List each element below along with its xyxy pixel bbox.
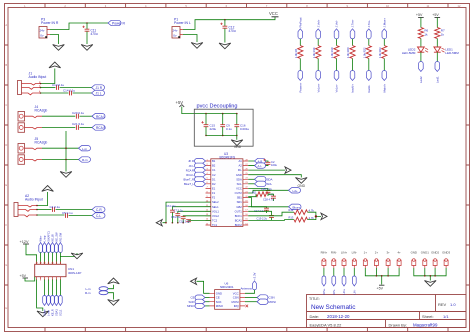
- svg-text:GND1: GND1: [421, 251, 429, 255]
- svg-text:SR1: SR1: [237, 200, 243, 204]
- ground under CN1: [37, 311, 49, 317]
- svg-text:backl+: backl+: [351, 84, 355, 93]
- wire: [352, 59, 354, 71]
- svg-text:RCA L: RCA L: [96, 115, 105, 119]
- svg-text:R13: R13: [289, 216, 294, 220]
- svg-text:Ld+: Ld+: [293, 189, 298, 193]
- wire A2 ring row: [37, 214, 64, 216]
- wire SDA: [248, 178, 254, 180]
- pin header 3+: [386, 251, 390, 269]
- svg-text:C14 0.1u: C14 0.1u: [63, 89, 76, 93]
- capacitor C11 470u: [82, 23, 97, 44]
- net flag CSN: [257, 295, 275, 300]
- wire OUT2 to Ld+ flag: [248, 190, 288, 193]
- wire: [336, 39, 338, 46]
- svg-text:JK R: JK R: [188, 159, 194, 163]
- svg-text:+5V: +5V: [20, 274, 27, 278]
- svg-text:1.0k R19: 1.0k R19: [330, 47, 334, 58]
- svg-text:SLine: SLine: [43, 309, 47, 316]
- svg-text:GND: GND: [234, 145, 242, 149]
- power flag +5V (pvcc): [176, 100, 185, 107]
- svg-text:IRQ: IRQ: [234, 304, 240, 308]
- svg-text:J.Man+: J.Man+: [383, 18, 387, 28]
- wire to A2 R flag: [56, 209, 92, 211]
- no-connect IRQ: [246, 305, 249, 308]
- svg-text:E: E: [5, 183, 7, 187]
- capacitor C17 2.2u: [248, 207, 269, 213]
- resistor R22 1.0k: [362, 46, 371, 59]
- wire: [59, 280, 61, 296]
- net port arrow down: [108, 300, 120, 306]
- svg-text:D: D: [5, 143, 7, 147]
- net flag J.Tre+: [350, 29, 355, 39]
- net flag SLine: [43, 296, 47, 306]
- svg-text:Power R: Power R: [112, 22, 126, 26]
- svg-text:RCA R: RCA R: [96, 126, 106, 130]
- svg-text:VOL1: VOL1: [212, 209, 219, 213]
- net flag SCL1: [59, 296, 63, 306]
- ground right of CN1: [71, 253, 83, 259]
- net flag MISO: [187, 303, 209, 308]
- svg-text:Led1: Led1: [436, 76, 440, 83]
- svg-text:0v: 0v: [173, 34, 177, 38]
- svg-text:+12V: +12V: [20, 240, 29, 244]
- svg-text:GND2: GND2: [431, 251, 439, 255]
- wire: [44, 253, 46, 265]
- capacitor C2: [263, 159, 277, 167]
- net flag PlsPout: [298, 29, 303, 39]
- svg-text:RIN+: RIN+: [322, 288, 326, 294]
- junction: [424, 275, 426, 277]
- LED LED2 LED-5MM: [402, 47, 428, 55]
- svg-text:BCA1: BCA1: [235, 219, 243, 223]
- ground (bottom row): [425, 281, 437, 287]
- wire: [333, 268, 335, 276]
- net flag A2 L: [92, 213, 105, 218]
- junction at C11: [86, 22, 88, 24]
- svg-text:1k: 1k: [441, 32, 445, 36]
- pvcc Decoupling group box: [194, 104, 253, 147]
- wire A1 row: [248, 161, 268, 162]
- svg-text:TC2: TC2: [212, 219, 218, 223]
- net port arrow right: [321, 213, 327, 219]
- resistor R7 1k: [435, 28, 445, 39]
- wire: [59, 253, 61, 265]
- connector P6 line out: [85, 287, 108, 295]
- wire +3.3V to VCC pin: [245, 290, 255, 294]
- net port arrow left (U6 gnd): [191, 278, 197, 284]
- svg-text:B: B: [5, 63, 7, 67]
- capacitor C26 2.2u: [248, 187, 272, 196]
- svg-text:J1 L: J1 L: [96, 92, 102, 96]
- net flag RCA L: [92, 114, 105, 119]
- wire P3 24v to Power R net: [50, 23, 108, 30]
- wire: [48, 253, 50, 265]
- net flag BlueT_L: [184, 181, 206, 186]
- net flag LIN+: [342, 276, 346, 286]
- svg-text:BCK2: BCK2: [235, 223, 243, 227]
- svg-text:B2: B2: [212, 164, 216, 168]
- svg-text:Sheet:: Sheet:: [422, 314, 434, 319]
- svg-text:LED-5MM: LED-5MM: [445, 51, 459, 55]
- wire: [40, 253, 42, 265]
- svg-text:MOSI: MOSI: [269, 300, 277, 304]
- svg-text:Date:: Date:: [310, 314, 320, 319]
- power flag +12V: [20, 240, 30, 244]
- net flag Ld+: [289, 188, 301, 193]
- svg-text:+5V: +5V: [176, 100, 184, 105]
- svg-text:C19 2.2u: C19 2.2u: [257, 216, 268, 220]
- wire R12/R13 join: [308, 212, 322, 219]
- junction at C12: [224, 19, 226, 21]
- net flag N-L: [255, 163, 266, 168]
- capacitor C19 2.2u: [248, 211, 274, 220]
- svg-text:C-R: C-R: [96, 208, 102, 212]
- power flag +5V (bottom): [377, 285, 385, 290]
- wire: [48, 280, 50, 296]
- wire: [323, 268, 325, 276]
- power flag VCC: [269, 11, 279, 17]
- wire J1 tip row: [41, 87, 56, 89]
- svg-text:+5V: +5V: [377, 287, 384, 291]
- net flag JK R: [188, 159, 205, 164]
- pin header GND3: [442, 251, 450, 269]
- svg-text:J.Vol-: J.Vol-: [335, 20, 339, 27]
- svg-text:BlueT_L: BlueT_L: [184, 182, 195, 186]
- net flag J.Man+: [382, 29, 387, 39]
- svg-text:TITLE:: TITLE:: [309, 297, 320, 301]
- svg-text:C1: C1: [212, 168, 216, 172]
- net flag N-R: [255, 158, 266, 163]
- capacitor C21 0.1u: [72, 122, 85, 130]
- svg-text:1.0: 1.0: [450, 302, 456, 307]
- net flag Blue+: [289, 204, 302, 209]
- resistor R19 1.0k: [330, 46, 339, 59]
- wire to A2 L flag: [69, 215, 92, 217]
- svg-text:Drawn By:: Drawn By:: [389, 322, 407, 327]
- svg-text:KE_SW: KE_SW: [55, 232, 59, 242]
- power flag +5V (CN1): [20, 274, 35, 281]
- svg-text:backl-: backl-: [367, 85, 371, 93]
- svg-text:C7 2.2u: C7 2.2u: [174, 209, 184, 213]
- capacitor C4 0.1u: [50, 205, 61, 212]
- wire A2 tip row: [37, 209, 51, 211]
- svg-text:REV: REV: [438, 302, 447, 307]
- capacitor C12 470u: [220, 20, 236, 43]
- svg-text:C2: C2: [212, 173, 216, 177]
- wire to RCA L flag: [80, 115, 93, 117]
- svg-text:SDA: SDA: [267, 177, 273, 181]
- capacitor C16 0.001u: [234, 114, 249, 136]
- svg-text:1.0k R14: 1.0k R14: [312, 47, 316, 58]
- net flag Mainl+: [382, 71, 387, 81]
- svg-text:+3.3V: +3.3V: [253, 272, 257, 280]
- wire: [353, 268, 355, 276]
- net flag backl+: [350, 70, 355, 80]
- resistor R14 1.0k: [312, 46, 321, 59]
- svg-text:2+: 2+: [375, 251, 379, 255]
- svg-text:LED-5MM: LED-5MM: [402, 51, 416, 55]
- pin header GND: [411, 251, 417, 269]
- svg-text:A: A: [5, 23, 7, 27]
- svg-text:VCC: VCC: [236, 187, 242, 191]
- ground under P3: [53, 45, 65, 51]
- net flag RCA R: [92, 125, 106, 130]
- op-amp U3 BD3491FS: [206, 152, 249, 227]
- net flag 5V(AFC): [47, 243, 51, 253]
- pin header 2+: [374, 251, 378, 269]
- svg-text:RIN-: RIN-: [331, 251, 337, 255]
- wire J4 top row: [42, 115, 75, 117]
- net port arrow left of caps: [156, 220, 162, 226]
- svg-text:Magacraft99: Magacraft99: [413, 322, 438, 327]
- pin header LIN-: [352, 251, 357, 269]
- pin header GND1: [421, 251, 429, 269]
- capacitor C14 0.1u: [63, 89, 76, 96]
- svg-text:R12: R12: [289, 208, 294, 212]
- LED LED1 LED-5MM: [434, 47, 459, 55]
- net flag Power R: [108, 20, 126, 25]
- svg-text:RIN-: RIN-: [332, 289, 336, 294]
- net flag L-mn: [47, 295, 51, 305]
- capacitor C9 0.1u: [220, 114, 232, 136]
- net flag R-in: [79, 157, 91, 162]
- net flag MOSI: [257, 299, 276, 304]
- svg-text:24v: 24v: [173, 28, 178, 32]
- wire 1+..4+ bus to +5V: [365, 268, 399, 285]
- wire pvcc top rail: [206, 113, 237, 115]
- connector A2 Audio INput: [14, 194, 43, 217]
- capacitor C5 0.1u: [62, 211, 73, 218]
- capacitor C7 2.2u: [174, 209, 211, 223]
- svg-text:Wln+: Wln+: [39, 235, 43, 241]
- wire J4 bottom row: [42, 127, 75, 129]
- svg-text:L-mn: L-mn: [47, 310, 51, 316]
- svg-text:1k: 1k: [424, 32, 428, 36]
- wire CN1 to ground right: [60, 253, 77, 257]
- svg-text:TC1: TC1: [212, 223, 218, 227]
- ground GND (U3): [296, 178, 308, 189]
- net flag A2 R: [92, 207, 105, 212]
- net flag Led1: [435, 61, 440, 71]
- svg-text:+5V: +5V: [416, 13, 423, 17]
- svg-text:KE_R: KE_R: [51, 309, 55, 316]
- junction rails: [205, 113, 207, 115]
- wire FIL to port: [248, 169, 285, 171]
- wire: [44, 280, 46, 296]
- wire: [383, 59, 385, 71]
- svg-text:B1: B1: [212, 159, 216, 163]
- net flag KE_R: [51, 296, 55, 306]
- junction: [315, 215, 317, 217]
- net port arrow up: [108, 278, 120, 284]
- wire SEL2 loop to caps: [163, 202, 211, 223]
- svg-text:LIN+: LIN+: [341, 251, 347, 255]
- svg-text:0.001u: 0.001u: [240, 127, 250, 131]
- net flag SCL: [255, 181, 273, 186]
- capacitor C13 0.1u: [52, 83, 65, 90]
- svg-text:RD.SW: RD.SW: [59, 232, 63, 241]
- svg-text:PlsPout: PlsPout: [299, 17, 303, 27]
- net flag Power+: [298, 71, 303, 81]
- svg-text:C4 0.1u: C4 0.1u: [50, 205, 61, 209]
- net flag Led2: [419, 61, 424, 71]
- wire: [55, 280, 57, 296]
- pin header GND2: [431, 251, 439, 269]
- svg-text:RCA2gb: RCA2gb: [35, 141, 48, 145]
- net flag J.Tre-: [367, 29, 372, 39]
- svg-text:3+: 3+: [386, 251, 390, 255]
- net flag VoLm+: [316, 71, 321, 81]
- svg-text:GND: GND: [236, 173, 242, 177]
- wire: [352, 39, 354, 46]
- svg-text:NRF24l01: NRF24l01: [220, 285, 234, 289]
- svg-text:A2: A2: [239, 164, 243, 168]
- wire port to A2 sleeve: [37, 192, 48, 206]
- svg-text:1/1: 1/1: [443, 314, 449, 319]
- wire SR1 to Blue+ flag: [248, 198, 288, 207]
- svg-text:SDA: SDA: [236, 177, 242, 181]
- svg-text:SCL: SCL: [237, 182, 243, 186]
- svg-text:R-in: R-in: [82, 158, 88, 162]
- wire to GND arrow: [108, 293, 114, 300]
- pin header 4+: [397, 251, 401, 269]
- wire: [52, 280, 54, 296]
- wire: [343, 268, 345, 276]
- svg-text:MISO: MISO: [187, 304, 195, 308]
- resistor R23 1.0k: [378, 46, 387, 59]
- svg-text:GND: GND: [411, 251, 417, 255]
- ground under RCA jacks: [60, 172, 72, 178]
- svg-text:A1: A1: [239, 159, 243, 163]
- connector CN1 300S-14P: [35, 262, 82, 282]
- wire to J1 L flag: [73, 92, 92, 94]
- svg-text:C13 0.1u: C13 0.1u: [52, 83, 65, 87]
- wire P3 0v to ground: [50, 35, 59, 45]
- svg-text:C5 0.1u: C5 0.1u: [62, 211, 73, 215]
- capacitor C15 220u: [201, 114, 216, 136]
- wire MOSI: [245, 301, 257, 303]
- pin header RIN+: [321, 251, 328, 269]
- power flag +5V: [416, 13, 424, 28]
- svg-text:1.0k R23: 1.0k R23: [378, 47, 382, 58]
- svg-text:Led2: Led2: [419, 76, 423, 83]
- net flag backl-: [367, 71, 372, 81]
- wire GND pin: [248, 175, 301, 178]
- wire A2 row: [248, 165, 268, 166]
- net flag J.Vol-: [334, 29, 339, 39]
- svg-text:LIN-: LIN-: [353, 289, 357, 294]
- module U6 NRF24l01 Antenna: [210, 282, 253, 310]
- svg-text:G: G: [5, 263, 7, 267]
- svg-text:Mainl+: Mainl+: [383, 84, 387, 93]
- svg-text:J.Vol+: J.Vol+: [316, 19, 320, 27]
- svg-text:100u: 100u: [271, 163, 277, 167]
- net flag SDA: [255, 177, 273, 182]
- connector P3 Power IN R: [39, 17, 59, 38]
- wire: [52, 253, 54, 265]
- wire: [368, 59, 370, 71]
- svg-text:JK L: JK L: [189, 164, 195, 168]
- svg-text:F2: F2: [212, 196, 216, 200]
- capacitor C10 2.2u: [179, 219, 211, 223]
- svg-text:VoLm+: VoLm+: [316, 83, 320, 92]
- wire: [55, 253, 57, 265]
- svg-text:VOL2: VOL2: [212, 214, 219, 218]
- svg-text:R-in: R-in: [85, 291, 91, 295]
- svg-text:C8 2.2u: C8 2.2u: [171, 215, 181, 219]
- svg-text:C6 1.0u: C6 1.0u: [166, 204, 176, 208]
- resistor R6 1k: [418, 28, 428, 39]
- svg-text:EasyEDA V5.8.22: EasyEDA V5.8.22: [310, 322, 343, 327]
- svg-text:1.0k R20: 1.0k R20: [346, 47, 350, 58]
- svg-text:C21 0.1u: C21 0.1u: [72, 122, 85, 126]
- svg-text:Blue+: Blue+: [293, 205, 301, 209]
- svg-text:Power+: Power+: [299, 82, 303, 92]
- wire to RCA R flag: [80, 127, 93, 129]
- svg-text:VoLm-: VoLm-: [335, 84, 339, 92]
- net flag JK L: [189, 163, 206, 168]
- svg-text:2018-12-20: 2018-12-20: [327, 314, 350, 319]
- svg-text:470u: 470u: [229, 29, 236, 33]
- net flag KE_SW: [55, 243, 59, 253]
- net flag Wln+: [39, 243, 43, 253]
- net port arrow FIL: [285, 167, 291, 173]
- svg-text:J.Tre+: J.Tre+: [351, 19, 355, 27]
- svg-text:C-L: C-L: [96, 214, 101, 218]
- net flag RIN+: [322, 276, 326, 286]
- resistor R12 4.7k: [289, 208, 315, 214]
- wire RCA sleeve to ground: [65, 131, 67, 172]
- svg-text:RCA L: RCA L: [186, 173, 194, 177]
- wire +5V into pvcc box: [182, 107, 206, 114]
- wire pvcc bottom rail: [206, 135, 237, 139]
- wire to J1 R flag: [60, 87, 92, 89]
- junction: [65, 147, 67, 149]
- svg-text:New Schematic: New Schematic: [311, 304, 356, 311]
- resistor R11 4.7k: [248, 190, 274, 196]
- svg-text:LIN-: LIN-: [352, 251, 357, 255]
- svg-text:SCL: SCL: [267, 182, 273, 186]
- svg-text:OUT1: OUT1: [235, 209, 243, 213]
- wire GND bus: [414, 268, 446, 281]
- wire to VCC arrow: [108, 285, 114, 289]
- wire port to U6 GND pin: [197, 281, 210, 293]
- svg-text:SEL1: SEL1: [212, 205, 219, 209]
- svg-text:4.7k: 4.7k: [309, 208, 315, 212]
- power flag +5V: [432, 13, 440, 28]
- svg-text:SEL2: SEL2: [212, 200, 219, 204]
- net flag KE_Bl: [51, 243, 55, 253]
- net flag SCK: [189, 299, 210, 304]
- wire P1 24v to VCC: [183, 17, 275, 30]
- svg-text:MISO: MISO: [216, 304, 224, 308]
- svg-text:H: H: [5, 306, 7, 310]
- wire: [436, 52, 438, 61]
- wire +12V to CN1 pin14: [26, 244, 37, 264]
- pin header RIN-: [331, 251, 337, 269]
- net flag SDA1: [55, 295, 59, 305]
- svg-text:A-L: A-L: [258, 164, 263, 168]
- wire CN1 pin1 to ground: [37, 280, 43, 312]
- capacitor C28 4.7u: [263, 196, 276, 201]
- svg-text:pvcc Decoupling: pvcc Decoupling: [197, 104, 238, 110]
- svg-text:GND3: GND3: [442, 251, 450, 255]
- wire: [336, 59, 338, 71]
- svg-text:1+: 1+: [364, 251, 368, 255]
- pin header 1+: [363, 251, 367, 269]
- svg-text:BlueT_R: BlueT_R: [184, 177, 195, 181]
